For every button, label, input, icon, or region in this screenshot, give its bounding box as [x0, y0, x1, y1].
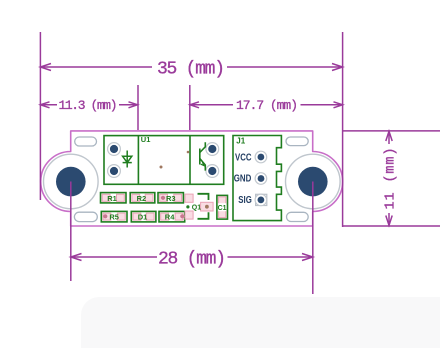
svg-text:J1: J1 [236, 137, 245, 146]
svg-text:35 (mm): 35 (mm) [157, 59, 225, 79]
svg-text:R1: R1 [107, 194, 117, 203]
svg-text:U1: U1 [141, 135, 151, 144]
svg-text:VCC: VCC [235, 152, 252, 163]
svg-text:SIG: SIG [238, 195, 252, 206]
svg-text:R4: R4 [165, 213, 175, 222]
svg-text:D1: D1 [138, 213, 148, 222]
svg-text:28 (mm): 28 (mm) [158, 249, 226, 269]
svg-text:17.7 (mm): 17.7 (mm) [236, 98, 298, 113]
svg-text:11 (mm): 11 (mm) [384, 148, 399, 210]
svg-text:GND: GND [234, 174, 252, 185]
svg-text:Q1: Q1 [192, 205, 201, 212]
svg-text:C1: C1 [218, 205, 227, 212]
svg-text:11.3 (mm): 11.3 (mm) [59, 98, 118, 113]
svg-text:R2: R2 [137, 194, 147, 203]
svg-text:R5: R5 [109, 213, 119, 222]
svg-text:R3: R3 [166, 194, 176, 203]
